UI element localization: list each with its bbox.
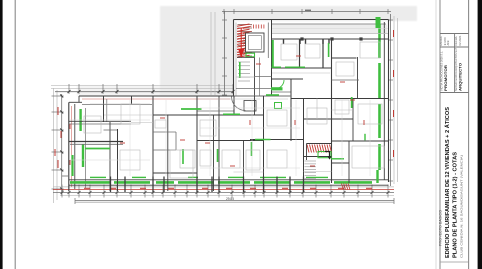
terrace mid rail [272,33,388,35]
wing corridor wall H y79 [272,78,304,80]
stair core door line [255,76,272,78]
green door V x251.5 [251,142,253,156]
interior wall H y139.5 center [250,139,304,141]
svg-text:PROMOTOR: PROMOTOR [443,65,448,91]
gray context halo band above left section [77,6,417,96]
green door V x183 [182,149,184,164]
light line y171.5 [304,171,332,173]
vertical dim lines left of top wing [210,12,212,95]
svg-text:29.85: 29.85 [226,197,234,201]
dim text mark on top chain [305,9,311,11]
stair2 direction arrow [325,152,330,157]
interior light dim lines [70,119,150,121]
green sill bits above bottom wall [90,176,106,178]
title block horizontal line y33.5 [440,33,469,35]
interior wall V x103.5 [103,96,105,122]
elevator room [246,33,265,52]
light line wing corridor [272,72,330,74]
green landing staircase 2 [318,152,331,158]
interior wall V x219 [218,96,220,191]
wall y92 below threshold [272,91,292,93]
wing window wall vertical 323 [322,39,324,68]
interior wall V x349 [348,141,350,183]
green segment on y140 wall [255,139,271,141]
entrance door arc [232,97,246,111]
white closet mid [244,101,256,112]
sheet inner frame left line [14,0,16,269]
viewer black strip left [0,0,3,269]
green threshold band [271,87,283,90]
title block bottom line [440,261,469,263]
interior wall H y132 [153,131,176,133]
light line left rooms y115 [104,114,153,116]
stub wall below stair core [254,96,256,115]
dimension chain above left section [51,85,233,87]
outer wall: left facade [68,102,70,191]
svg-text:02.2021: 02.2021 [458,35,462,46]
svg-text:FECHA: FECHA [454,36,458,45]
stair2 lower treads [305,160,317,162]
interior wall H y173 [153,172,197,174]
interior wall V x110 [109,122,111,191]
window end mullions crossing bottom band [110,177,112,193]
red tread numbers row [253,25,255,29]
light line y110 [332,109,354,111]
green partition y109 [181,108,202,110]
interior wall V x353 [352,99,354,142]
interior wall H y130 [104,129,119,131]
light V x317 [316,99,318,120]
green V x351.7 [351,97,353,108]
red dimension line bottom [53,189,394,191]
green door leaf in core [239,62,241,78]
outer wall: left section top edge [79,95,234,97]
green segment on y115 wall [223,113,240,115]
svg-text:CLUB CENIDIA N. 16 SAGUNO/SAGU: CLUB CENIDIA N. 16 SAGUNO/SAGUNT (VALENC… [459,155,463,258]
wing partition vertical 331 [331,39,333,183]
green interior window mid [275,103,282,109]
outer wall: bottom edge inner line [69,184,389,186]
interior wall H y98.5 [291,98,389,100]
interior wall H y150 [153,149,176,151]
interior wall V x176 [175,132,177,150]
title block left border [439,0,441,269]
title block horizontal line y47 [440,46,469,48]
wing left wall stub to y115 [233,96,235,115]
red numbers on bottom chain [84,187,90,189]
title block info cells tiny text [439,35,462,46]
interior wall V x243.5 [243,141,245,192]
core interior partitions [254,58,256,97]
green glazing band right facade [378,24,381,58]
terrace column marks [300,37,303,40]
interior wall H y119 [304,118,354,120]
green door near 331 [328,43,330,57]
interior wall V x213.5 [213,115,215,191]
green corner bottom-right [376,170,378,183]
green bit 365 [364,134,366,141]
green block top-right corner [376,17,381,28]
green door segment on y68 wall [272,66,282,68]
dimension chains below building [53,186,394,188]
red stair stringer hatch [237,24,250,26]
outer wall: bottom edge face line [69,179,389,181]
green band inside left wall [79,109,81,131]
title block vertical divider [454,34,456,93]
svg-text:EDIFICIO PLURIFAMILIAR DE 12 V: EDIFICIO PLURIFAMILIAR DE 12 VIVIENDAS +… [444,107,451,258]
red dimension numbers right chain [393,30,395,37]
wall stub x131.5 [131,96,133,104]
light line y172 [234,171,264,173]
wing partition vertical 291 [290,79,292,142]
green door V x217.5 [217,149,219,162]
title block horizontal line y92.5 [440,92,469,94]
interior wall H y121.3 [69,120,131,122]
green strip right of landing [331,158,344,160]
main body top wall continuation y96 [234,95,292,97]
svg-text:PROYECTO BASICO: PROYECTO BASICO [438,209,442,246]
interior wall H y141 right [332,140,389,142]
interior wall H y58 right section [332,57,357,59]
outer wall: top wing left edge [233,20,235,97]
interior wall V x153 [152,96,154,191]
svg-text:A3: A3 [446,40,450,46]
viewer black strip right [478,0,482,269]
interior wall V x303.5 [303,99,305,184]
green glazing band bottom facade [70,181,110,184]
interior wall V x117.5 [117,129,119,191]
dimension chain right of building [390,14,392,186]
interior wall H y111 light [197,110,234,112]
interior wall H y156.5 [304,156,332,158]
interior wall H y141.5 [69,141,123,143]
svg-text:ESCALA: ESCALA [439,36,443,45]
svg-text:ARQUITECTO: ARQUITECTO [457,63,462,91]
wing window wall vertical 299.5 [299,39,301,68]
outer wall: right facade [388,20,390,183]
red numbers left chain [57,107,59,115]
overall dimension double line bottom [75,200,394,202]
staircase 2 red hatch [307,144,332,161]
outer wall: top wing top edge [234,19,389,21]
green landing element [246,53,255,57]
interior wall V x357.5 [357,57,359,99]
stair core walls [236,23,271,97]
wing corridor wall H y68 [272,67,332,69]
stair treads lower flight [238,61,250,63]
interior wall H y140.5 [234,140,264,142]
terrace door jamb stubs [283,39,285,44]
terrace gray band in top wing [272,25,387,34]
red hatch patch near 345 [342,184,344,190]
interior wall V x167.8 [167,115,169,191]
interior wall H y140.5 x197-233 [197,140,234,142]
green door arc wing corridor [276,80,285,89]
green door leaf from stair core [272,40,274,67]
interior wall H y163 [332,162,350,164]
interior wall H y115 long [153,114,264,116]
dimension chain above top wing [222,11,391,13]
green sill on top wall mid [266,94,279,96]
green window lower-left facade [71,155,73,176]
terrace bottom wall [272,38,389,40]
furniture light lines [84,116,101,133]
corner tick bottom-left [62,175,69,177]
red interior dimension dashes [69,124,71,129]
dimension chain left side [53,88,55,203]
interior wall V x197 [196,96,198,191]
title block outer left faint line [435,0,437,269]
svg-text:PLANO DE PLANTA TIPO (1-2) - C: PLANO DE PLANTA TIPO (1-2) - COTAS [452,151,458,258]
green partition strip left room [85,148,110,150]
red down arrow [240,28,242,50]
interior wall V x263.5 mid divider [263,96,265,191]
sheet inner frame right line [468,0,470,269]
staircase treads upper flight [238,24,253,26]
interior wall H y80 [332,79,360,81]
